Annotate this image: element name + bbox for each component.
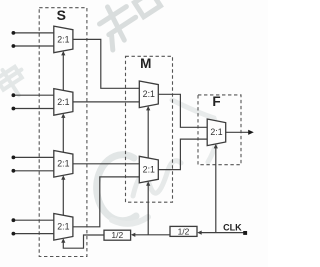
svg-text:2:1: 2:1 xyxy=(57,97,69,107)
svg-text:F: F xyxy=(212,94,220,109)
mux M2 xyxy=(139,156,158,185)
svg-text:2:1: 2:1 xyxy=(210,127,222,137)
svg-text:2:1: 2:1 xyxy=(57,34,69,44)
wire input A0 to mux S1 xyxy=(14,32,54,34)
wire mux S3 output to mux M2 input 1 xyxy=(73,163,139,165)
node input C1 xyxy=(12,169,16,173)
dashed block S xyxy=(39,8,87,257)
mux S1 xyxy=(54,26,73,55)
wire select rail M segment between M1 and M2 xyxy=(147,110,149,159)
svg-text:1/2: 1/2 xyxy=(111,230,123,240)
mux S3 xyxy=(54,151,73,180)
svg-text:CLK: CLK xyxy=(223,222,242,232)
wire select rail S segment between S3 and S4 xyxy=(62,179,64,216)
wire select rail S segment between S1 and S2 xyxy=(62,54,64,90)
wire mux M2 output to mux F input 2 xyxy=(158,139,207,170)
svg-text:2:1: 2:1 xyxy=(57,159,69,169)
node input A0 xyxy=(12,31,16,35)
svg-text:2:1: 2:1 xyxy=(143,165,155,175)
wire mux S2 output to mux M1 input 2 xyxy=(73,101,139,103)
wire input B1 to mux S2 xyxy=(14,108,54,110)
mux S4 xyxy=(54,214,73,243)
wire mux S1 output to mux M1 input 1 xyxy=(73,39,139,88)
divider DIV2 value 1/2 xyxy=(170,226,202,236)
divider DIV1 value 1/2 xyxy=(104,230,135,240)
node input C0 xyxy=(12,156,16,160)
node input B0 xyxy=(12,93,16,97)
node input D0 xyxy=(12,218,16,222)
wire select rail S segment between S2 and S3 xyxy=(62,117,64,152)
svg-text:2:1: 2:1 xyxy=(57,222,69,232)
wire mux M1 output to mux F input 1 xyxy=(158,94,207,127)
wire divider DIV1 output loop to mux S select rail xyxy=(63,235,104,248)
wire divider DIV2 output to divider DIV1 input and mux M select rail xyxy=(135,234,170,236)
svg-text:M: M xyxy=(140,56,151,71)
node input B1 xyxy=(12,107,16,111)
wire input B0 to mux S2 xyxy=(14,94,54,96)
terminal input dots xyxy=(12,31,16,236)
node input D1 xyxy=(12,232,16,236)
wire input D0 to mux S4 xyxy=(14,219,54,221)
svg-text:S: S xyxy=(57,7,66,23)
wire input A1 to mux S1 xyxy=(14,45,54,47)
dashed block M xyxy=(126,56,173,202)
mux S2 xyxy=(54,89,73,118)
svg-text:1/2: 1/2 xyxy=(178,226,190,236)
svg-text:2:1: 2:1 xyxy=(143,89,155,99)
node input A1 xyxy=(12,44,16,48)
wire CLK branch to mux F select xyxy=(215,148,217,233)
wire input C1 to mux S3 xyxy=(14,170,54,172)
output arrow of mux F xyxy=(248,130,254,135)
mux M1 xyxy=(139,81,158,110)
wire input C0 to mux S3 xyxy=(14,156,54,158)
wire mux F output to OUT arrow xyxy=(226,131,249,133)
wire CLK net from terminal to divider DIV2 input xyxy=(202,232,245,234)
mux F1 xyxy=(207,119,226,148)
watermark strokes (decorative) xyxy=(0,0,217,224)
wire mux S4 output to mux M2 input 2 xyxy=(73,177,139,227)
wire input D1 to mux S4 xyxy=(14,233,54,235)
dashed block F xyxy=(198,95,241,165)
wire select rail M segment below M2 to divider rail junction xyxy=(147,185,149,235)
node CLK terminal xyxy=(243,231,247,235)
